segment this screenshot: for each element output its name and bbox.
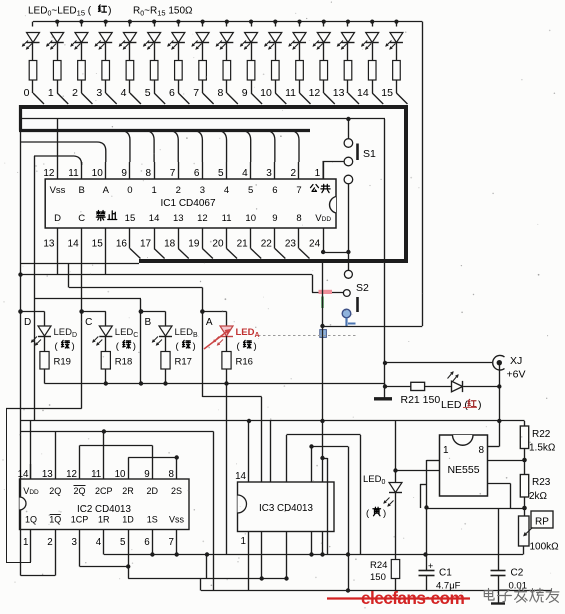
svg-text:): ) — [133, 341, 136, 352]
resistor R16 — [222, 352, 231, 370]
svg-text:100kΩ: 100kΩ — [530, 542, 560, 553]
resistor R8 150 — [223, 61, 231, 81]
resistor R13 150 — [344, 61, 352, 81]
wire rail to S2 feed column — [422, 22, 424, 326]
IC3 notch — [238, 495, 247, 513]
svg-text:+6V: +6V — [507, 369, 526, 381]
svg-text:14: 14 — [18, 469, 29, 480]
svg-text:2D: 2D — [146, 486, 158, 496]
resistor R23 2k — [520, 475, 528, 498]
svg-text:10: 10 — [92, 168, 104, 179]
wire green LED cathode common — [45, 383, 386, 385]
wire select line A from D-column to pin10 — [21, 142, 106, 162]
LED LED7 (red) — [201, 20, 205, 24]
wire IC3 feedback loop 1 — [287, 434, 361, 436]
svg-text:B: B — [145, 317, 152, 328]
wire 1Q to left edge loop — [30, 548, 32, 562]
wire Vss stub — [176, 548, 178, 555]
wire LED9 into bus — [251, 93, 262, 104]
svg-text:11: 11 — [68, 168, 79, 179]
svg-text:D: D — [54, 213, 61, 224]
svg-text:+: + — [428, 561, 433, 571]
svg-text:S1: S1 — [363, 148, 376, 160]
svg-text:4: 4 — [224, 185, 229, 196]
wire pin12 Vss to ground line — [57, 119, 59, 162]
LED LED10 (red) — [273, 20, 277, 24]
svg-text:): ) — [478, 399, 482, 411]
wire thin bus extension left — [21, 263, 140, 265]
wire IC1 pin 23 into bus — [299, 249, 310, 259]
svg-text:1: 1 — [443, 445, 449, 456]
svg-text:4: 4 — [96, 537, 102, 548]
resistor R11 150 — [296, 61, 304, 81]
wire VDD distribution line — [21, 420, 525, 422]
pin IC1 bottom pin 16 — [129, 228, 131, 249]
svg-text:3: 3 — [72, 537, 78, 548]
svg-text:21: 21 — [237, 239, 249, 250]
wire B column down — [140, 312, 142, 384]
svg-text:1: 1 — [23, 537, 28, 548]
svg-text:2Q: 2Q — [73, 486, 85, 496]
pin IC1 top pin 9 — [129, 162, 131, 179]
svg-text:R16: R16 — [236, 357, 253, 368]
svg-text:8: 8 — [146, 168, 152, 179]
svg-text:): ) — [383, 508, 386, 519]
svg-text:24: 24 — [309, 239, 321, 250]
svg-text:elecfans·com: elecfans·com — [361, 588, 464, 608]
annotation red mark on S2 wire — [319, 290, 333, 294]
svg-text:8: 8 — [217, 87, 223, 99]
bus thick bottom horizontal — [139, 259, 408, 263]
svg-text:NE555: NE555 — [447, 464, 479, 476]
svg-text:13: 13 — [333, 87, 345, 99]
svg-text:C2: C2 — [511, 568, 524, 579]
svg-text:15: 15 — [125, 213, 136, 224]
svg-text:6: 6 — [194, 168, 200, 179]
svg-text:1R: 1R — [98, 515, 110, 525]
annotation dotted line — [258, 335, 358, 337]
svg-text:12: 12 — [66, 469, 77, 480]
svg-text:12: 12 — [43, 168, 55, 179]
wire pin15 inhibit stub — [105, 249, 107, 275]
wire IC1 pin1 to S1 — [323, 162, 343, 180]
svg-text:): ) — [193, 341, 196, 352]
svg-text:16: 16 — [116, 239, 128, 250]
svg-text:7: 7 — [193, 87, 199, 99]
wire R16 column continues to lower circuit — [226, 384, 228, 555]
node B — [139, 309, 144, 314]
wire S1 chain down to S2 — [348, 184, 350, 270]
svg-text:9: 9 — [242, 87, 248, 99]
svg-text:1Q: 1Q — [25, 515, 37, 525]
svg-text:C: C — [85, 317, 92, 328]
wire LED11 into bus — [300, 93, 311, 104]
wire bus tap to IC1 pin 5 — [217, 131, 227, 163]
wire channel feed to node A — [68, 263, 70, 287]
svg-text:4: 4 — [121, 87, 127, 99]
wire LED13 into bus — [348, 93, 359, 104]
wire IC1 pin 22 into bus — [275, 249, 286, 259]
pin IC1 top pin 6 — [202, 162, 204, 179]
svg-text:2kΩ: 2kΩ — [529, 491, 548, 502]
pin IC2 top 14 — [30, 464, 32, 479]
LED LEDA (green) — [220, 326, 233, 336]
wire NE555 right lower — [488, 483, 511, 485]
wire R21 to LED — [425, 386, 452, 388]
LED LEDD (green) — [38, 326, 51, 336]
op IC3 CD4013 box — [238, 482, 335, 532]
svg-text:5: 5 — [218, 168, 224, 179]
resistor R19 — [40, 352, 49, 370]
wire bus tap to IC1 pin 7 — [168, 131, 178, 163]
wire pin13 to select line — [57, 249, 59, 275]
svg-text:11: 11 — [91, 469, 101, 480]
svg-text:1: 1 — [151, 185, 156, 196]
wire IC1 pin 19 into bus — [202, 249, 213, 259]
LED LED12 (red) — [322, 20, 326, 24]
LED LED8 (red) — [225, 20, 229, 24]
wire bus tap to IC1 pin 6 — [192, 131, 202, 163]
wire node D to LED — [21, 311, 45, 313]
svg-text:4: 4 — [242, 168, 248, 179]
wire IC1 pin 21 into bus — [251, 249, 262, 259]
wire LED anode rail — [33, 21, 422, 23]
wire jog column — [206, 555, 208, 579]
wire 1R / lower distribution line — [103, 548, 105, 555]
svg-text:5: 5 — [248, 185, 253, 196]
wire select/inhibit line to S2 — [21, 274, 313, 276]
svg-text:11: 11 — [222, 213, 232, 224]
resistor R2 150 — [78, 61, 86, 81]
wire IC3 feedback loop 3 — [323, 458, 328, 460]
svg-text:S2: S2 — [356, 282, 369, 294]
svg-text:LED (: LED ( — [441, 399, 468, 411]
pin IC1 top pin 2 — [298, 162, 300, 179]
pin IC1 top pin 7 — [178, 162, 180, 179]
resistor R22 1.5k — [524, 421, 526, 426]
node S1 feed junction — [346, 117, 350, 121]
pin IC2 bottom 7 — [176, 530, 178, 549]
pin IC1 top pin 8 — [154, 162, 156, 179]
wire node A to LED — [202, 311, 226, 313]
wire LED to +6V column — [464, 386, 500, 388]
svg-text:R19: R19 — [54, 357, 71, 368]
svg-text:9: 9 — [144, 469, 149, 480]
svg-text:1.5kΩ: 1.5kΩ — [529, 443, 556, 454]
wire NE555 pin2 to LED0 node — [396, 470, 440, 472]
pin IC1 top pin 5 — [226, 162, 228, 179]
ground below C2 — [498, 591, 500, 604]
svg-text:10: 10 — [115, 469, 126, 480]
node C — [79, 309, 84, 314]
pin IC2 bottom 3 — [79, 530, 81, 549]
svg-text:2: 2 — [290, 168, 296, 179]
wire LED8 into bus — [227, 93, 238, 104]
resistor R5 150 — [150, 61, 158, 81]
wire LED1 into bus — [57, 93, 68, 104]
wire D select column — [20, 131, 22, 313]
svg-text:150: 150 — [370, 572, 386, 583]
potentiometer RP 100k — [519, 516, 530, 546]
wire ground column — [384, 119, 386, 398]
wire to S1 — [348, 119, 350, 139]
resistor R14 150 — [368, 61, 376, 81]
wire NE555 left to timing node — [427, 460, 440, 462]
svg-text:5: 5 — [120, 537, 126, 548]
svg-text:13: 13 — [173, 213, 184, 224]
pin IC1 bottom pin 14 — [81, 228, 83, 249]
LED LED15 (red) — [394, 20, 398, 24]
svg-text:5: 5 — [145, 87, 151, 99]
wire A column down to IC3 — [202, 312, 204, 398]
resistor R6 150 — [175, 61, 183, 81]
wire node C to LED — [82, 311, 106, 313]
wire IC1 pin 20 into bus — [227, 249, 238, 259]
svg-text:1D: 1D — [122, 515, 134, 525]
svg-text:10: 10 — [260, 87, 272, 99]
wire +6V column — [499, 363, 501, 421]
pin IC1 bottom pin 13 — [57, 228, 59, 249]
wire bus tap to IC1 pin 4 — [241, 131, 251, 163]
svg-text:0: 0 — [24, 87, 30, 99]
switch S1 — [344, 139, 353, 148]
svg-text:1: 1 — [315, 168, 321, 179]
svg-text:13: 13 — [42, 469, 53, 480]
svg-text:11: 11 — [285, 87, 296, 99]
resistor R1 150 — [53, 61, 61, 81]
wire LED2 into bus — [81, 93, 92, 104]
wire 2CP tap — [103, 432, 105, 465]
switch S2 lever — [356, 297, 359, 312]
svg-text:D: D — [24, 317, 31, 328]
LED LED9 (red) — [249, 20, 253, 24]
wire LED7 into bus — [203, 93, 214, 104]
LED LED3 (red) — [104, 20, 108, 24]
switch S2 bottom contact (blue mark) — [342, 309, 351, 318]
wire IC1 pin 17 into bus — [154, 249, 165, 259]
wire LED3 into bus — [106, 93, 117, 104]
svg-text:14: 14 — [235, 471, 246, 482]
svg-text:Vss: Vss — [169, 515, 185, 525]
pin IC1 top pin 12 — [57, 162, 59, 179]
svg-text:R21 150: R21 150 — [401, 394, 441, 406]
switch S2 top contact — [344, 270, 352, 278]
svg-text:1S: 1S — [147, 515, 158, 525]
svg-text:9: 9 — [121, 168, 127, 179]
svg-text:R23: R23 — [532, 477, 551, 488]
svg-text:): ) — [72, 341, 75, 352]
label IC1 common 公共 — [311, 185, 319, 192]
svg-text:14: 14 — [68, 239, 80, 250]
pin IC1 top pin 1 — [323, 162, 325, 179]
svg-text:7: 7 — [170, 168, 176, 179]
bus thick top horizontal — [20, 105, 406, 109]
capacitor C2 0.01 — [498, 508, 500, 571]
wire XJ to ground column — [385, 362, 492, 364]
pin IC1 bottom pin 23 — [298, 228, 300, 249]
wire ground line y119 — [21, 118, 386, 120]
pin IC1 bottom pin 15 — [105, 228, 107, 249]
svg-text:0: 0 — [127, 185, 132, 196]
wire D column down to IC2 pin2 — [20, 312, 22, 576]
LED LED6 (red) — [176, 20, 180, 24]
wire LED12 into bus — [324, 93, 335, 104]
svg-text:13: 13 — [43, 239, 55, 250]
svg-text:2: 2 — [176, 185, 181, 196]
wire 1Qbar from D column — [55, 548, 57, 576]
node D — [18, 309, 23, 314]
resistor R4 150 — [126, 61, 134, 81]
resistor R7 150 — [199, 61, 207, 81]
LED LED0 (red) — [32, 22, 34, 27]
pin IC1 top pin 3 — [274, 162, 276, 179]
svg-text:2CP: 2CP — [95, 486, 113, 496]
svg-text:0.01: 0.01 — [509, 581, 528, 592]
svg-text:2: 2 — [47, 537, 52, 548]
wire bus tap to IC1 pin 3 — [265, 131, 275, 163]
svg-text:3: 3 — [96, 87, 102, 99]
wire pin24 VDD jog to switch column — [323, 249, 325, 253]
resistor R0 150 — [29, 61, 37, 81]
pin IC2 bottom 2 — [55, 530, 57, 549]
ground symbol — [374, 397, 392, 400]
IC1 notch — [330, 197, 336, 214]
watermark 电子发烧友 — [484, 588, 494, 600]
svg-text:IC1 CD4067: IC1 CD4067 — [160, 198, 215, 209]
svg-text:2: 2 — [72, 87, 78, 99]
wire LED10 into bus — [275, 93, 286, 104]
annotation red arrow pointing at LEDA — [204, 330, 229, 349]
svg-text:1Q: 1Q — [49, 515, 61, 525]
pin IC1 bottom pin 18 — [178, 228, 180, 249]
node below S1 — [344, 175, 353, 184]
wire 1D down — [128, 548, 130, 579]
svg-text:R24: R24 — [370, 560, 387, 571]
svg-text:IC3 CD4013: IC3 CD4013 — [259, 503, 313, 514]
svg-text:3: 3 — [266, 168, 272, 179]
pin IC1 bottom pin 22 — [274, 228, 276, 249]
wire left edge loop column — [6, 409, 8, 563]
wire timing line to RP — [427, 508, 525, 510]
svg-text:8: 8 — [296, 213, 301, 224]
svg-text:12: 12 — [309, 87, 321, 99]
svg-text:15: 15 — [381, 87, 393, 99]
IC2 notch — [20, 497, 27, 510]
pin IC2 bottom 4 — [103, 530, 105, 549]
wire NE555 pin8 to +6V — [488, 446, 500, 448]
wire 1CP to 1D — [79, 548, 81, 567]
pin IC2 top 13 — [55, 464, 57, 479]
pin IC1 bottom pin 19 — [202, 228, 204, 249]
pin IC1 top pin 10 — [105, 162, 107, 179]
wire S2 bottom to LED feed line (blue) — [345, 318, 347, 326]
wire 2Q to bottom route — [55, 432, 57, 465]
resistor R12 150 — [320, 61, 328, 81]
wire 1S stub — [152, 548, 154, 555]
wire LED15 into bus — [396, 93, 407, 104]
wire LED0 column — [395, 421, 397, 483]
wire LED0 into bus — [33, 93, 44, 104]
LED LED13 (red) — [346, 20, 350, 24]
wire LED5 into bus — [154, 93, 165, 104]
svg-text:1: 1 — [48, 87, 54, 99]
svg-text:6: 6 — [144, 537, 150, 548]
svg-text:RP: RP — [535, 517, 549, 528]
svg-text:C1: C1 — [439, 568, 452, 579]
svg-text:): ) — [108, 5, 112, 17]
wire LED4 into bus — [130, 93, 141, 104]
LED LED4 (red) — [128, 20, 132, 24]
svg-text:3: 3 — [200, 185, 205, 196]
svg-text:A: A — [206, 317, 213, 328]
node A — [200, 309, 205, 314]
svg-text:19: 19 — [188, 239, 200, 250]
wire NE555 stub — [420, 484, 427, 486]
svg-text:C: C — [78, 213, 85, 224]
LED LEDB (green) — [159, 326, 172, 336]
pin IC2 bottom 1 — [30, 530, 32, 549]
pin IC1 bottom pin 24 — [323, 228, 325, 249]
capacitor C1 4.7uF — [426, 555, 428, 572]
op IC2 CD4013 box — [20, 479, 190, 530]
svg-text:R22: R22 — [532, 429, 551, 440]
svg-text:IC2 CD4013: IC2 CD4013 — [77, 504, 131, 515]
LED LED0 (yellow) — [389, 483, 402, 493]
resistor R21 150 — [385, 386, 411, 388]
wire IC1 pin 16 into bus — [130, 249, 141, 259]
resistor R3 150 — [102, 61, 110, 81]
svg-text:7: 7 — [296, 185, 301, 196]
wire bus tap to IC1 pin 2 — [289, 131, 299, 163]
svg-text:20: 20 — [212, 239, 224, 250]
wire bus tap to IC1 pin 9 — [120, 131, 130, 163]
pin IC2 top 10 — [128, 464, 130, 479]
svg-text:7: 7 — [169, 537, 174, 548]
wire LED feed line y326 — [323, 326, 423, 328]
svg-text:14: 14 — [357, 87, 369, 99]
annotation blue square — [320, 330, 327, 338]
NE555 notch — [453, 435, 474, 445]
svg-text:R18: R18 — [115, 357, 132, 368]
watermark strike line — [327, 597, 470, 599]
pin IC2 top 9 — [152, 464, 154, 479]
svg-text:Vss: Vss — [50, 185, 66, 196]
svg-text:R17: R17 — [175, 357, 192, 368]
LED LED14 (red) — [370, 20, 374, 24]
pin IC1 bottom pin 21 — [250, 228, 252, 249]
LED LED2 (red) — [79, 20, 83, 24]
resistor R18 — [101, 352, 110, 370]
svg-text:6: 6 — [169, 87, 175, 99]
wire select line B from B-column to pin11 — [34, 156, 82, 165]
pin IC1 top pin 4 — [250, 162, 252, 179]
svg-text:8: 8 — [169, 469, 175, 480]
wire 2Qbar to 2D — [79, 446, 81, 465]
wire channel column from bus to IC3 — [322, 263, 324, 482]
LED LEDC (green) — [99, 326, 112, 336]
wire bus tap to IC1 pin 8 — [144, 131, 154, 163]
svg-text:1CP: 1CP — [71, 515, 89, 525]
wire IC3 feedback loop 2 — [312, 446, 349, 448]
bus thick second row to IC1 inputs — [19, 129, 310, 132]
wire IC1 pin 18 into bus — [178, 249, 189, 259]
svg-text:XJ: XJ — [510, 355, 522, 367]
svg-text:12: 12 — [197, 213, 208, 224]
wire LED14 into bus — [372, 93, 383, 104]
pin IC2 top 8 — [176, 464, 178, 479]
svg-text:23: 23 — [285, 239, 297, 250]
svg-text:10: 10 — [245, 213, 256, 224]
